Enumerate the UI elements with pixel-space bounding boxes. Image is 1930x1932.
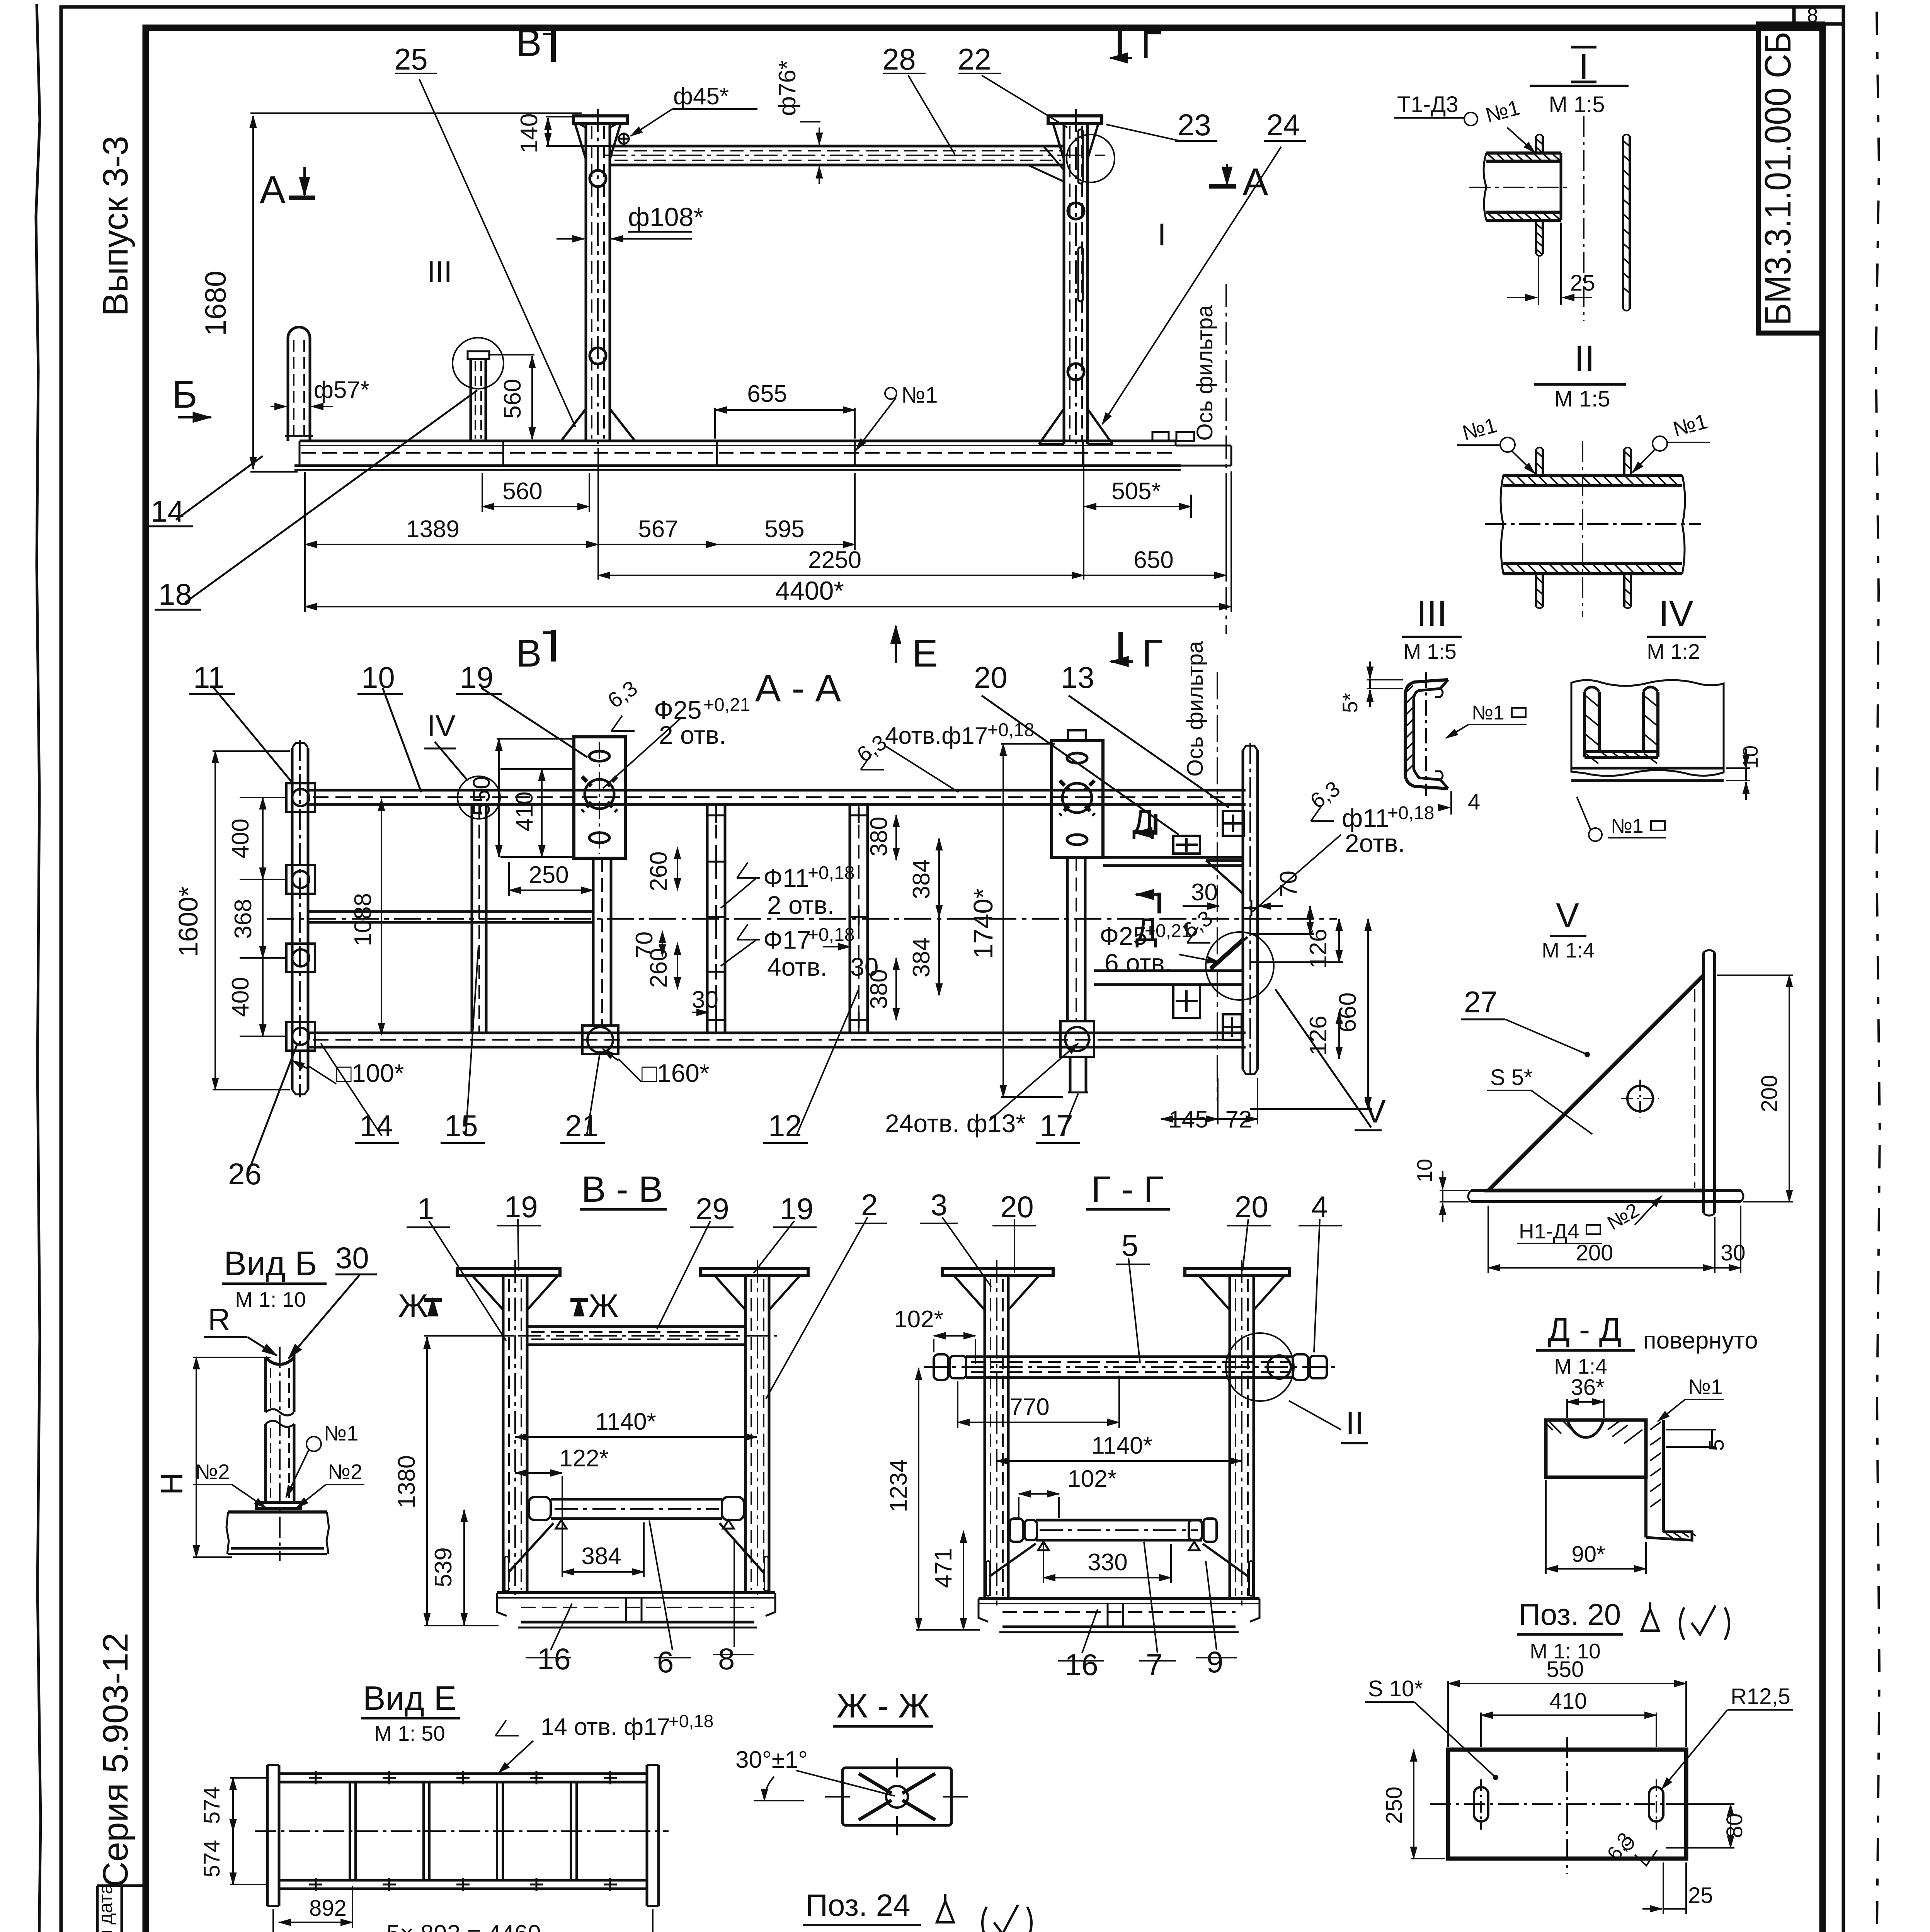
svg-text:8: 8 bbox=[1807, 4, 1818, 27]
leader 4otv phi17 top bbox=[885, 746, 958, 792]
svg-text:Выпуск 3-3: Выпуск 3-3 bbox=[96, 136, 135, 316]
svg-text:80: 80 bbox=[1722, 1813, 1747, 1838]
bottom dim row4 bbox=[305, 606, 1231, 607]
D section marks bbox=[1134, 814, 1161, 913]
bb labels bbox=[393, 1188, 878, 1679]
svg-text:4: 4 bbox=[1468, 789, 1480, 815]
svg-text:4отв.ф17: 4отв.ф17 bbox=[885, 723, 988, 749]
node squares on left channel bbox=[286, 783, 315, 1051]
VIEW: detail II bbox=[1457, 338, 1710, 617]
fe labels bbox=[199, 42, 1300, 605]
left column pipe bbox=[574, 109, 627, 448]
dim 145 72 bbox=[1161, 1118, 1218, 1120]
aa labels bbox=[173, 641, 1434, 1191]
VIEW: detail IV bbox=[1571, 593, 1762, 841]
dim 1680 bbox=[250, 112, 582, 114]
svg-text:30: 30 bbox=[1721, 1240, 1746, 1265]
svg-text:539: 539 bbox=[430, 1547, 457, 1587]
svg-text:250: 250 bbox=[529, 862, 568, 888]
svg-text:Ж: Ж bbox=[398, 1287, 428, 1324]
VIEW: front elevation bbox=[285, 109, 1231, 634]
N1 flag bbox=[306, 1437, 321, 1451]
svg-text:9: 9 bbox=[1207, 1645, 1223, 1679]
base plate bbox=[1471, 1189, 1741, 1192]
svg-text:II: II bbox=[1346, 1405, 1364, 1441]
svg-text:14: 14 bbox=[151, 494, 184, 528]
svg-text:В - В: В - В bbox=[581, 1169, 663, 1210]
svg-text:7: 7 bbox=[1146, 1648, 1162, 1682]
svg-text:Подп.и дата: Подп.и дата bbox=[95, 1883, 116, 1932]
svg-text:384: 384 bbox=[908, 937, 935, 977]
svg-text:1680: 1680 bbox=[199, 270, 232, 336]
svg-text:122*: 122* bbox=[559, 1445, 609, 1472]
part leaders bbox=[429, 1221, 506, 1341]
right wall strip bbox=[1623, 134, 1630, 311]
leader phi17 bbox=[721, 939, 757, 966]
verticals bbox=[350, 1782, 577, 1880]
channel base bbox=[226, 1512, 329, 1554]
leader N1 bbox=[856, 398, 896, 450]
svg-text:14: 14 bbox=[359, 1109, 393, 1143]
svg-text:S 5*: S 5* bbox=[1490, 1065, 1533, 1090]
svg-text:М 1:5: М 1:5 bbox=[1403, 639, 1457, 663]
svg-text:330: 330 bbox=[1088, 1549, 1127, 1576]
svg-text:IV: IV bbox=[427, 709, 456, 743]
svg-text:126: 126 bbox=[1305, 1015, 1332, 1055]
axis filter line bbox=[1225, 284, 1227, 634]
svg-text:200: 200 bbox=[1757, 1075, 1782, 1112]
svg-text:М 1:5: М 1:5 bbox=[1554, 386, 1610, 412]
leader 28 bbox=[908, 75, 955, 155]
right column base gussets bbox=[1039, 409, 1113, 444]
sq100 leader bbox=[309, 1066, 336, 1084]
svg-text:2 отв.: 2 отв. bbox=[767, 891, 834, 919]
svg-text:Ось фильтра: Ось фильтра bbox=[1183, 641, 1208, 777]
svg-text:380: 380 bbox=[866, 816, 892, 856]
svg-text:5× 892 = 4460: 5× 892 = 4460 bbox=[386, 1920, 541, 1932]
svg-text:18: 18 bbox=[158, 577, 192, 611]
svg-text:560: 560 bbox=[502, 478, 542, 505]
left channel post11 bbox=[292, 740, 308, 1097]
svg-text:70: 70 bbox=[1275, 871, 1302, 897]
svg-text:126: 126 bbox=[1305, 929, 1332, 968]
svg-text:574: 574 bbox=[199, 1840, 225, 1878]
dim 1088 bbox=[381, 799, 382, 1035]
leader phi11 bbox=[721, 877, 757, 908]
svg-text:№1: №1 bbox=[901, 383, 938, 408]
left column base gussets bbox=[561, 409, 635, 441]
dim 1600 bbox=[214, 751, 216, 1090]
svg-text:IV: IV bbox=[1659, 593, 1693, 634]
dims 260 70 260 bbox=[677, 847, 678, 890]
svg-text:10: 10 bbox=[1738, 745, 1762, 769]
svg-text:М 1:5: М 1:5 bbox=[1549, 92, 1605, 117]
right channel bbox=[1243, 743, 1258, 1077]
code box vertical bbox=[1758, 24, 1823, 333]
svg-text:III: III bbox=[427, 255, 452, 289]
svg-text:13: 13 bbox=[1061, 660, 1094, 694]
top beam phi76 bbox=[603, 146, 1105, 165]
svg-text:+0,18: +0,18 bbox=[1387, 803, 1434, 823]
aa top part leaders bbox=[189, 688, 1382, 1175]
svg-text:5: 5 bbox=[1704, 1439, 1728, 1451]
base bbox=[497, 1593, 775, 1628]
VIEW: Zh-Zh bbox=[735, 1687, 968, 1835]
svg-text:550: 550 bbox=[468, 776, 495, 816]
bottom dim row3 bbox=[598, 575, 1084, 576]
lower bar bbox=[1010, 1519, 1217, 1550]
svg-text:550: 550 bbox=[1547, 1657, 1584, 1682]
svg-text:11: 11 bbox=[193, 660, 225, 694]
svg-text:8: 8 bbox=[718, 1642, 735, 1676]
svg-text:36*: 36* bbox=[1571, 1375, 1604, 1400]
svg-text:400: 400 bbox=[227, 818, 254, 858]
slots bbox=[1474, 1787, 1488, 1821]
svg-text:145: 145 bbox=[1168, 1106, 1208, 1133]
right column pipe bbox=[1048, 109, 1102, 450]
svg-text:2: 2 bbox=[861, 1188, 878, 1222]
svg-text:Поз. 24: Поз. 24 bbox=[805, 1888, 910, 1922]
big tube bbox=[1501, 475, 1685, 574]
dim 140 bbox=[547, 118, 549, 145]
second post bbox=[468, 351, 489, 441]
diagonal brace top bbox=[1206, 861, 1244, 894]
detail I circle bbox=[1067, 134, 1115, 182]
svg-text:1740*: 1740* bbox=[968, 888, 998, 959]
svg-text:Вид Б: Вид Б bbox=[224, 1244, 317, 1282]
fe dimensions bbox=[250, 73, 1306, 612]
torn left paper edge bbox=[36, 4, 41, 1932]
detail III circle bbox=[453, 338, 504, 389]
dims bbox=[232, 1778, 234, 1831]
svg-text:400: 400 bbox=[227, 977, 254, 1017]
top rail bbox=[308, 789, 1246, 792]
svg-text:10: 10 bbox=[361, 660, 395, 694]
svg-text:Ось фильтра: Ось фильтра bbox=[1192, 305, 1217, 441]
plate 19 with bolt pattern bbox=[574, 737, 625, 858]
svg-text:+0,18: +0,18 bbox=[808, 863, 854, 883]
svg-text:16: 16 bbox=[1065, 1648, 1098, 1682]
svg-text:72: 72 bbox=[1225, 1106, 1252, 1133]
svg-text:19: 19 bbox=[460, 660, 494, 694]
svg-text:595: 595 bbox=[764, 516, 804, 543]
svg-text:1234: 1234 bbox=[885, 1459, 912, 1512]
svg-text:Серия 5.903-12: Серия 5.903-12 bbox=[96, 1633, 135, 1888]
svg-text:II: II bbox=[1574, 338, 1595, 379]
body bbox=[1546, 1420, 1646, 1477]
leader phi25 6otv bbox=[1179, 954, 1219, 962]
svg-text:А: А bbox=[1242, 160, 1268, 204]
hole strip member mid-left bbox=[707, 804, 725, 1033]
VIEW: Vid B bbox=[155, 1241, 377, 1561]
left column bbox=[457, 1260, 560, 1600]
svg-text:5: 5 bbox=[1122, 1228, 1138, 1262]
dim phi76 bbox=[819, 128, 820, 145]
leader 24otv phi13 bbox=[989, 1043, 1078, 1121]
dims 400 368 400 bbox=[262, 798, 264, 879]
svg-text:770: 770 bbox=[1009, 1394, 1049, 1420]
gg dims bbox=[916, 1217, 1342, 1661]
sq160 leader bbox=[618, 1059, 642, 1082]
detail II circle bbox=[1226, 1333, 1294, 1401]
svg-text:Ж: Ж bbox=[589, 1287, 619, 1324]
dim 30 small bbox=[692, 1012, 708, 1013]
svg-text:505*: 505* bbox=[1111, 478, 1161, 505]
svg-text:27: 27 bbox=[1464, 985, 1498, 1019]
hole strip member mid-right bbox=[850, 804, 868, 1033]
svg-text:1140*: 1140* bbox=[1091, 1432, 1152, 1459]
svg-text:Н: Н bbox=[155, 1473, 189, 1495]
dim phi57 bbox=[271, 406, 286, 407]
svg-text:+0,18: +0,18 bbox=[669, 1711, 713, 1731]
svg-text:384: 384 bbox=[908, 859, 935, 899]
svg-text:250: 250 bbox=[1382, 1787, 1407, 1824]
svg-text:№1: №1 bbox=[324, 1421, 359, 1445]
svg-text:4: 4 bbox=[1311, 1190, 1328, 1224]
bottom dim row2 bbox=[305, 544, 598, 545]
part leaders bottom bbox=[321, 1043, 382, 1136]
upper tube through bbox=[924, 1354, 1337, 1380]
channel plate bbox=[1702, 952, 1705, 1213]
braces bbox=[508, 1523, 764, 1573]
svg-text:410: 410 bbox=[511, 791, 538, 831]
svg-text:5*: 5* bbox=[1338, 693, 1362, 713]
gg labels bbox=[885, 1188, 1368, 1682]
svg-text:30°±1°: 30°±1° bbox=[735, 1747, 808, 1773]
vertical member 15 bbox=[472, 804, 486, 1033]
braces bbox=[989, 1544, 1248, 1577]
svg-text:ф108*: ф108* bbox=[628, 202, 704, 232]
svg-text:+0,18: +0,18 bbox=[987, 720, 1034, 740]
svg-text:Ф25: Ф25 bbox=[654, 696, 702, 724]
bottom rail bbox=[308, 1032, 1246, 1034]
svg-text:Г: Г bbox=[1141, 23, 1162, 66]
leader phi11 2otv right bbox=[1252, 835, 1341, 912]
dim phi108 bbox=[557, 238, 584, 240]
svg-text:368: 368 bbox=[230, 899, 257, 939]
VIEW: Poz 24 bbox=[684, 1888, 1031, 1932]
svg-text:V: V bbox=[1556, 896, 1579, 935]
svg-text:28: 28 bbox=[882, 42, 916, 76]
svg-text:29: 29 bbox=[696, 1192, 729, 1226]
svg-text:III: III bbox=[1416, 593, 1447, 634]
dim 1740 bbox=[1002, 744, 1004, 1097]
svg-text:Б: Б bbox=[172, 373, 197, 416]
svg-text:25: 25 bbox=[1570, 270, 1595, 296]
svg-text:567: 567 bbox=[638, 516, 678, 543]
diagonal brace bottom bbox=[1210, 937, 1248, 971]
aa dimensions bbox=[213, 716, 1372, 1143]
svg-text:650: 650 bbox=[1133, 547, 1173, 573]
svg-text:574: 574 bbox=[199, 1787, 225, 1824]
svg-text:660: 660 bbox=[1334, 992, 1361, 1032]
svg-text:В: В bbox=[516, 21, 542, 65]
svg-text:471: 471 bbox=[930, 1548, 957, 1588]
svg-text:М 1:2: М 1:2 bbox=[1647, 639, 1700, 663]
right column bbox=[700, 1260, 808, 1600]
svg-text:R: R bbox=[208, 1302, 230, 1337]
base rail bbox=[294, 432, 1231, 470]
svg-text:ф76*: ф76* bbox=[774, 60, 801, 116]
svg-text:410: 410 bbox=[1550, 1689, 1587, 1714]
svg-text:4400*: 4400* bbox=[775, 576, 844, 605]
plate 20 right with bolt pattern bbox=[1052, 730, 1103, 857]
VIEW: detail III bbox=[1338, 593, 1527, 815]
svg-text:25: 25 bbox=[1688, 1883, 1713, 1908]
svg-text:140: 140 bbox=[516, 113, 543, 153]
svg-text:2250: 2250 bbox=[808, 547, 861, 573]
svg-text:повернуто: повернуто bbox=[1643, 1327, 1758, 1354]
svg-text:26: 26 bbox=[228, 1157, 262, 1191]
svg-text:1:5: 1:5 bbox=[835, 1930, 866, 1932]
svg-text:30: 30 bbox=[335, 1241, 369, 1275]
bb Zh marks bbox=[398, 1287, 619, 1324]
triangle bbox=[1488, 975, 1704, 1190]
left wall strip bbox=[1536, 134, 1543, 256]
base lines bbox=[1571, 767, 1724, 770]
svg-text:12: 12 bbox=[768, 1109, 802, 1143]
svg-text:23: 23 bbox=[1178, 108, 1211, 142]
svg-text:90*: 90* bbox=[1571, 1542, 1605, 1567]
svg-text:+0,18: +0,18 bbox=[808, 925, 854, 945]
torn right paper edge bbox=[1876, 12, 1880, 1932]
central member 21 bbox=[582, 858, 618, 1054]
left column bbox=[943, 1260, 1053, 1605]
svg-text:ф11: ф11 bbox=[1342, 804, 1389, 832]
svg-text:25: 25 bbox=[394, 42, 428, 76]
dim 655 bbox=[715, 409, 855, 411]
svg-text:М 1: 50: М 1: 50 bbox=[374, 1721, 445, 1745]
VIEW: Poz 20 bbox=[1365, 1597, 1793, 1914]
bottom dim row1 bbox=[482, 506, 589, 507]
bb dims bbox=[407, 1217, 887, 1658]
axis filter vertical bbox=[1217, 672, 1218, 1101]
svg-text:21: 21 bbox=[565, 1109, 599, 1143]
svg-text:24отв. ф13*: 24отв. ф13* bbox=[885, 1109, 1026, 1138]
svg-text:Ж - Ж: Ж - Ж bbox=[837, 1687, 930, 1725]
svg-text:19: 19 bbox=[780, 1192, 814, 1226]
dim 550 410 bbox=[498, 739, 500, 857]
svg-text:30: 30 bbox=[850, 952, 878, 981]
svg-text:30: 30 bbox=[1191, 879, 1218, 906]
plus marks bbox=[309, 1771, 617, 1784]
svg-text:3: 3 bbox=[931, 1188, 947, 1222]
post upper segment with saddle bbox=[266, 1357, 294, 1364]
svg-text:V: V bbox=[1364, 1093, 1386, 1129]
circle V mark bbox=[1206, 932, 1274, 1000]
svg-text:S 10*: S 10* bbox=[1368, 1676, 1423, 1701]
svg-text:+0,21: +0,21 bbox=[703, 695, 750, 715]
svg-text:20: 20 bbox=[1000, 1190, 1034, 1224]
small tubes bbox=[1536, 447, 1631, 608]
svg-text:Г - Г: Г - Г bbox=[1091, 1169, 1163, 1210]
svg-text:655: 655 bbox=[747, 381, 787, 407]
svg-text:Д - Д: Д - Д bbox=[1548, 1311, 1622, 1348]
svg-text:Ф17: Ф17 bbox=[763, 925, 811, 954]
channel walls bbox=[1585, 687, 1658, 764]
svg-text:Ф11: Ф11 bbox=[763, 864, 809, 892]
leader 22 bbox=[982, 75, 1067, 128]
rail plate to channel bbox=[1103, 856, 1243, 859]
node squares right bbox=[1173, 811, 1259, 1040]
svg-text:Н1-Д4: Н1-Д4 bbox=[1519, 1219, 1579, 1243]
svg-text:384: 384 bbox=[581, 1543, 621, 1570]
svg-text:2 отв.: 2 отв. bbox=[659, 721, 726, 749]
svg-text:30: 30 bbox=[692, 986, 718, 1013]
svg-text:260: 260 bbox=[645, 851, 672, 891]
svg-text:№1: №1 bbox=[1472, 702, 1505, 724]
svg-text:24: 24 bbox=[1266, 108, 1300, 142]
svg-text:R12,5: R12,5 bbox=[1731, 1684, 1790, 1709]
svg-text:А - А: А - А bbox=[755, 667, 841, 710]
lower bar bbox=[529, 1497, 744, 1529]
svg-text:№2: №2 bbox=[195, 1460, 230, 1484]
svg-text:□100*: □100* bbox=[336, 1059, 404, 1087]
svg-text:I: I bbox=[1157, 217, 1166, 252]
svg-text:Е: Е bbox=[912, 632, 938, 675]
svg-text:17: 17 bbox=[1040, 1109, 1073, 1143]
svg-text:2отв.: 2отв. bbox=[1345, 829, 1405, 857]
svg-text:20: 20 bbox=[1235, 1190, 1268, 1224]
svg-text:□160*: □160* bbox=[642, 1059, 710, 1087]
6,3 flag left bbox=[611, 716, 635, 731]
leg bbox=[1644, 1420, 1647, 1537]
extension lines bbox=[304, 472, 306, 612]
svg-text:Г: Г bbox=[1142, 632, 1163, 675]
VIEW: section B-B bbox=[457, 1169, 808, 1628]
svg-text:1: 1 bbox=[417, 1192, 434, 1226]
left stamp boxes bbox=[97, 1886, 146, 1932]
plate bbox=[1448, 1750, 1686, 1859]
svg-text:260: 260 bbox=[645, 948, 672, 988]
svg-text:10: 10 bbox=[1413, 1159, 1436, 1182]
svg-text:102*: 102* bbox=[894, 1306, 943, 1333]
detail IV circle bbox=[458, 776, 500, 819]
left post phi57 bbox=[285, 327, 313, 441]
hole bbox=[1627, 1086, 1653, 1111]
right column bbox=[1185, 1260, 1290, 1605]
svg-text:А: А bbox=[260, 168, 286, 211]
VIEW: section A-A plan bbox=[267, 667, 1337, 1101]
svg-text:1389: 1389 bbox=[406, 516, 460, 543]
center axis bbox=[267, 918, 1337, 920]
svg-text:6 отв.: 6 отв. bbox=[1105, 949, 1172, 977]
svg-text:ф57*: ф57* bbox=[314, 377, 369, 403]
mid rail left half bbox=[308, 910, 593, 913]
leader 25 bbox=[419, 79, 575, 427]
svg-text:№2: №2 bbox=[328, 1460, 363, 1484]
leader 24 bbox=[1102, 147, 1281, 424]
svg-text:Вид Е: Вид Е bbox=[363, 1679, 456, 1717]
fragment boundary bbox=[1571, 680, 1724, 776]
VIEW: detail I bbox=[1394, 46, 1630, 321]
sheet number box 8 bbox=[1794, 7, 1843, 24]
svg-text:1380: 1380 bbox=[393, 1455, 420, 1509]
aa top labels bbox=[193, 660, 494, 694]
svg-text:М 1: 10: М 1: 10 bbox=[235, 1287, 306, 1311]
svg-text:Д: Д bbox=[1135, 912, 1157, 948]
right member 17 bbox=[1060, 857, 1094, 1092]
svg-text:102*: 102* bbox=[1067, 1466, 1117, 1492]
svg-text:1140*: 1140* bbox=[595, 1408, 656, 1435]
VIEW: section G-G bbox=[924, 1169, 1337, 1632]
part labels with underline bbox=[146, 390, 477, 610]
svg-text:14 отв. ф17: 14 отв. ф17 bbox=[541, 1714, 670, 1740]
leader 23 bbox=[1106, 124, 1181, 141]
svg-text:ф45*: ф45* bbox=[673, 83, 729, 110]
fe section marks bbox=[146, 21, 1268, 675]
svg-text:16: 16 bbox=[537, 1642, 571, 1676]
